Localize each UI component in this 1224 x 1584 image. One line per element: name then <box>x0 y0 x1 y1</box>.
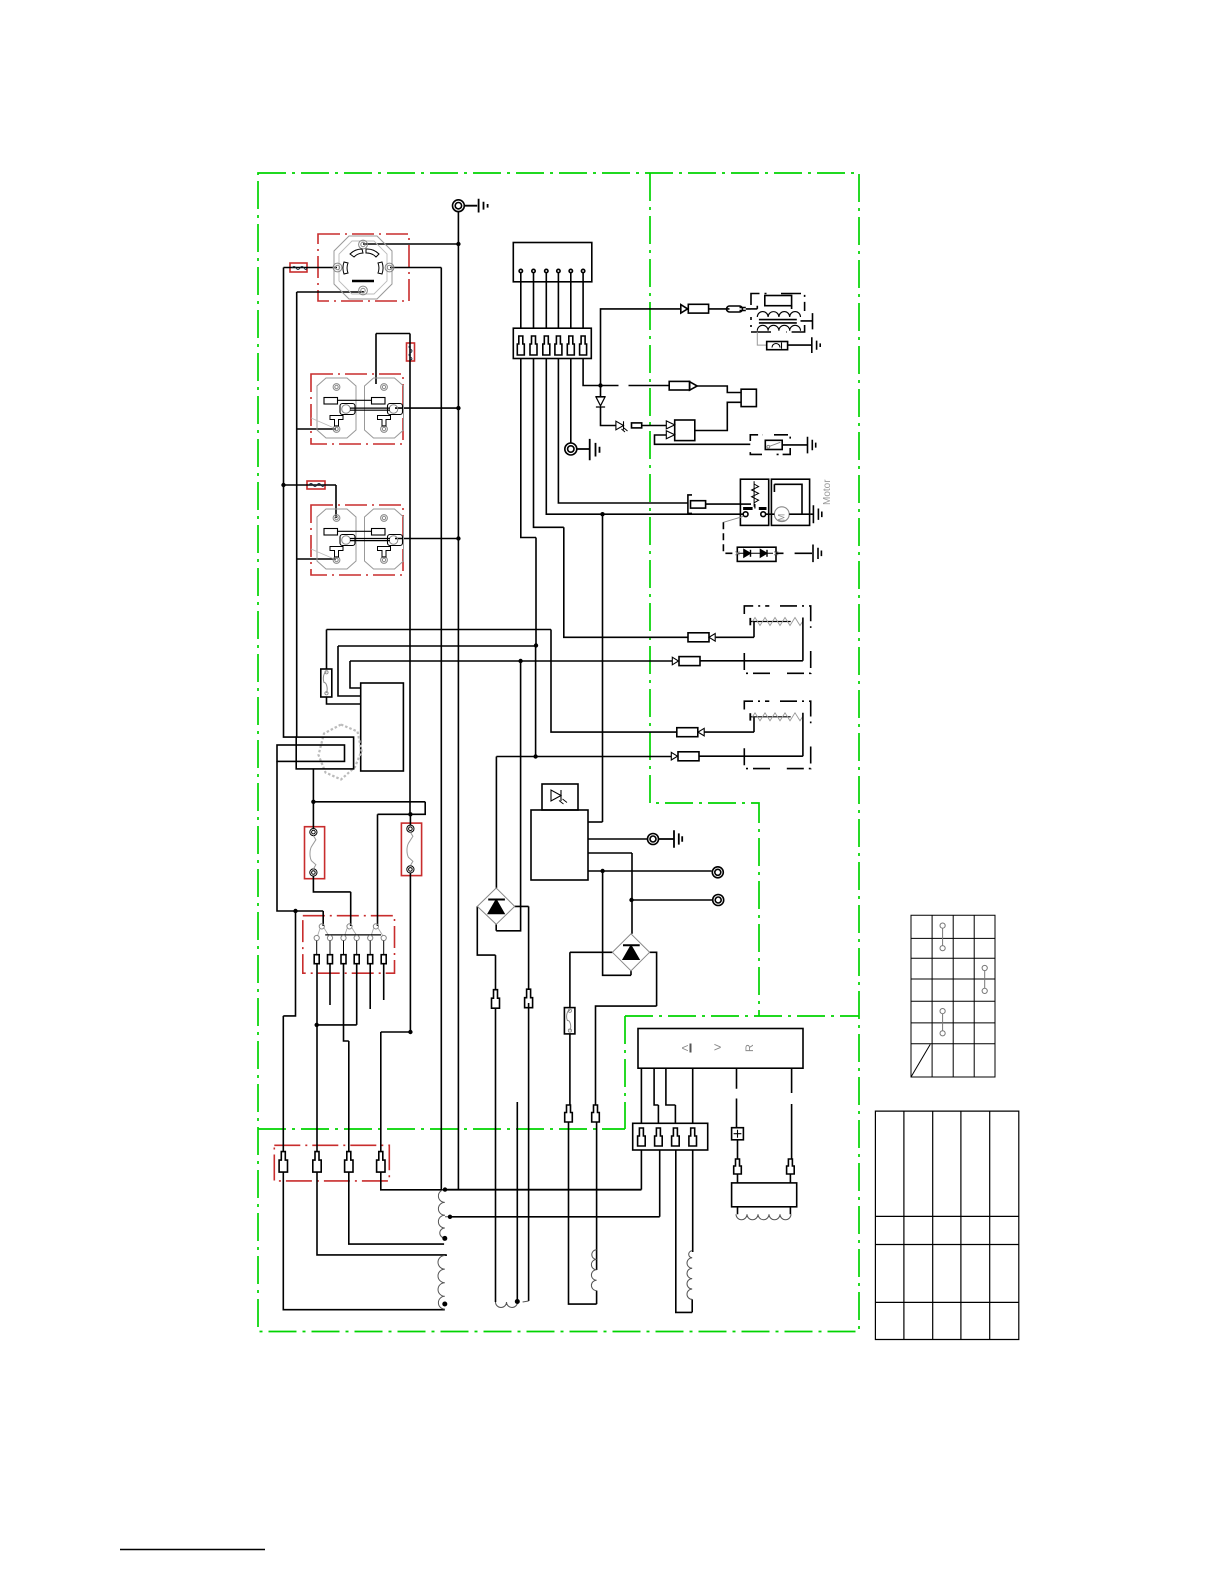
junction dots <box>281 242 633 1307</box>
wire ignition feed up to coil lead <box>601 309 681 386</box>
bullet B5 <box>565 1105 573 1122</box>
wire node to CDI connector <box>601 385 670 387</box>
relay RY2 fuel cut <box>741 389 756 406</box>
wire ignition coil lead bullet <box>709 308 751 310</box>
wire strip jumper y1024 <box>317 964 357 1025</box>
wire regulator top output <box>588 821 603 823</box>
wire exciter coil left leg <box>676 1150 692 1312</box>
connector C3 <box>345 1152 353 1173</box>
wire regulator output to bridge2 top <box>588 853 632 934</box>
receptacle R2 duplex <box>311 378 404 438</box>
wire R2 feed from x410 <box>376 334 410 815</box>
wire CB bus y801 <box>313 802 425 815</box>
wire R1 right terminal to x441 <box>390 267 441 269</box>
wire CDI block lower input from oil switch <box>655 435 751 444</box>
wire connector pin3 to starter relay contact <box>546 359 743 515</box>
terminal strip box <box>303 916 395 974</box>
wire source coil up to bullet <box>596 952 657 1270</box>
wire bridge1 dc negative down to winding <box>495 1008 497 1302</box>
svg-text:<: < <box>681 1041 688 1055</box>
control panel boundary top <box>625 1015 859 1017</box>
starter solenoid RY1 <box>723 479 768 553</box>
engine compartment boundary <box>258 173 859 1332</box>
terminal TP1 <box>712 867 723 878</box>
spark plug E1 <box>757 332 820 353</box>
wire battery cable loops <box>738 1207 791 1214</box>
wire connector C3 to winding mid <box>349 1172 444 1244</box>
control panel boundary left <box>624 1016 626 1129</box>
wire strip terminal5 stub <box>369 964 371 1009</box>
wire R3 output to neutral bus <box>395 538 458 540</box>
circuit breaker CB1 box <box>305 827 325 879</box>
wire bridge1 left vertex to bullet <box>477 906 495 989</box>
regulator U2 <box>531 784 588 880</box>
GREEN_BORDERS <box>258 173 859 1332</box>
section divider <box>650 173 759 1016</box>
ignition coil T1 <box>751 294 813 333</box>
svg-text:Motor: Motor <box>822 479 833 505</box>
wire strip terminal6 stub <box>383 964 385 1000</box>
battery BT1 <box>732 1183 797 1220</box>
wire label L3 <box>407 343 415 361</box>
wire R1 top terminal to neutral bus <box>363 243 458 245</box>
wire y756 to lamp coil 2 lower and bridge1 <box>496 757 671 889</box>
connector group box <box>274 1145 389 1181</box>
connector C2 <box>313 1152 321 1173</box>
receptacle R1 dash box <box>318 234 409 301</box>
wire label L2 branch to R3 top screw <box>284 485 337 518</box>
main winding W1 <box>438 1190 450 1310</box>
bridge rectifier BR2 <box>612 934 649 971</box>
wire strip terminal2 stub <box>329 964 331 1005</box>
wire label L1 <box>290 263 307 272</box>
lamp coil LC2 <box>671 701 810 768</box>
wire bus3 to lamp coil 1 lower <box>350 661 672 688</box>
ground G3 regulator <box>648 830 683 848</box>
terminal TP2 <box>713 895 724 906</box>
wire LED resistor to CDI block <box>642 425 667 427</box>
source coil W3 <box>591 1250 596 1291</box>
wire x602 dropper from relay row to regulator <box>602 514 604 822</box>
connector C4 <box>377 1152 385 1173</box>
wire bridge2 left vertex to fuse F2 <box>570 952 613 1007</box>
connector P1 ignition lead <box>681 304 746 313</box>
connector housing J2 <box>513 328 591 358</box>
wire exciter coil to housing <box>692 1150 694 1252</box>
connector P2 CDI input <box>669 381 697 390</box>
wire R1 bottom terminal to x296 <box>297 291 363 292</box>
dc winding W2 <box>496 1301 529 1308</box>
svg-text:R: R <box>744 1044 756 1052</box>
wire x296 vertical to terminal strip feed <box>296 292 298 737</box>
wire CDI block to relay RY2 lower <box>695 402 741 430</box>
wire neutral bus x458 from ground to bridge level <box>457 212 459 1190</box>
ground G1 top <box>453 199 488 213</box>
wire x602 to bridge2 bottom loop <box>603 871 631 975</box>
receptacle R2 dash box <box>311 374 403 444</box>
breaker CB1 internals <box>310 829 317 877</box>
wire connector pin4 to starter fuse <box>558 359 688 504</box>
diode pack D3 <box>736 545 822 563</box>
circuit breaker CB2 box <box>401 823 421 876</box>
wire bus1 to lamp coil 2 upper <box>327 630 677 733</box>
wire connector pin5 to ground terminal <box>570 359 572 444</box>
control block U3 <box>361 683 404 771</box>
connector block J1 <box>513 243 592 329</box>
diode D1 <box>596 397 605 407</box>
wire regulator ground output <box>588 838 648 840</box>
wire switch panel pins to housing <box>641 1068 692 1123</box>
bullet B6 <box>592 1105 600 1122</box>
wire strip terminal3 jog to connector C3 <box>344 964 349 1152</box>
wire switch panel battery pin <box>736 1068 738 1128</box>
wire strip terminal1 to connector C2 <box>317 964 447 1255</box>
wire R3 bottom screw to x296 <box>297 558 336 560</box>
control panel boundary horizontal <box>258 1128 625 1130</box>
wire R2 output to x642 <box>395 407 458 409</box>
table T1 pin chart <box>911 915 995 1077</box>
label squiggles <box>292 267 412 487</box>
starter fuse F1 <box>688 495 706 514</box>
fuse F2 <box>564 1008 575 1034</box>
lamp coil LC1 <box>672 606 810 673</box>
wire diode D1 branch <box>601 386 616 426</box>
wire CB2 output to connector C4 <box>381 873 411 1032</box>
wire left bus x283 down to hour meter <box>284 268 297 738</box>
wire CB2 input <box>409 814 411 825</box>
wire bus2 to control block <box>338 646 536 696</box>
wire connector C4 to winding top bus <box>381 1032 642 1190</box>
CDI unit U1 <box>666 420 695 441</box>
wire dc tap from bullet <box>528 1003 530 1301</box>
wire R2 bottom screw to x296 <box>297 428 336 430</box>
RED_BOXES <box>274 234 421 1181</box>
wire connector pin6 to ignition node <box>583 359 600 386</box>
terminal strip TB1 <box>314 924 386 964</box>
switch panel S1 <box>638 1029 803 1069</box>
wire x520 branch to bridge1 loop <box>496 661 520 931</box>
wire dc winding right leg <box>516 1102 518 1302</box>
wire bus2 branch x535 down <box>535 646 537 757</box>
wire x441 long vertical to winding bus <box>440 268 442 1190</box>
hour meter HM1 <box>277 725 362 780</box>
exciter coil W4 <box>687 1251 692 1300</box>
wire hour meter lower lead <box>277 761 323 926</box>
wire bridge2 top branch to terminal <box>632 899 713 901</box>
ground G2 harness <box>565 439 600 460</box>
wire battery plus lead <box>737 1140 739 1183</box>
connector housing J3 <box>633 1123 708 1150</box>
svg-text:>: > <box>714 1040 722 1055</box>
receptacle R3 duplex <box>311 509 404 569</box>
wire main winding top tap to housing <box>445 1150 641 1190</box>
bridge rectifier BR1 <box>477 888 514 924</box>
fuse F3 panel <box>321 669 332 697</box>
wire connector pin2 jog to lamp coil1 upper <box>534 359 689 638</box>
bullet B1 <box>492 990 500 1009</box>
wire bridge1 right vertex to bullet <box>515 906 529 989</box>
wire bus1 fuse branch to control block <box>327 630 361 705</box>
wire connector pin1 jog to bus2 <box>521 359 536 646</box>
fuse F4 battery <box>732 1128 744 1140</box>
svg-text:M: M <box>777 514 787 522</box>
wire x295 drop to connector C1 <box>283 911 295 1016</box>
bullet B3 <box>734 1159 742 1174</box>
wire hour meter to CB1 <box>312 769 314 829</box>
bullet B4 <box>787 1159 795 1174</box>
wire regulator output to terminal 2 <box>588 870 712 872</box>
table T2 spec chart <box>875 1111 1018 1339</box>
wire R1 left terminal through label L1 <box>284 267 338 269</box>
wire strip screw feed from CB2 bus <box>377 814 379 926</box>
wire label L2 <box>307 481 325 489</box>
wire switch panel ground pin <box>790 1068 791 1183</box>
breaker CB2 internals <box>407 825 414 873</box>
bullet B2 <box>525 989 533 1008</box>
receptacle R3 dash box <box>311 505 403 575</box>
wire CB1 output jog to strip <box>313 876 350 926</box>
receptacle R1 twist lock <box>333 236 394 299</box>
wire starter fuse to solenoid coil <box>706 503 741 505</box>
wire fuse F2 to bullet to source coil <box>569 1034 597 1304</box>
wire footer rule <box>120 1549 265 1551</box>
LED D2 with resistor <box>616 421 642 432</box>
connector C1 <box>279 1152 287 1173</box>
wire connector C1 to winding bottom <box>283 1016 445 1310</box>
oil pressure switch S2 <box>750 435 815 455</box>
wire main winding mid tap to housing <box>450 1150 660 1217</box>
wire CDI connector to relay RY2 <box>697 386 741 393</box>
starter motor M1 <box>766 479 833 526</box>
